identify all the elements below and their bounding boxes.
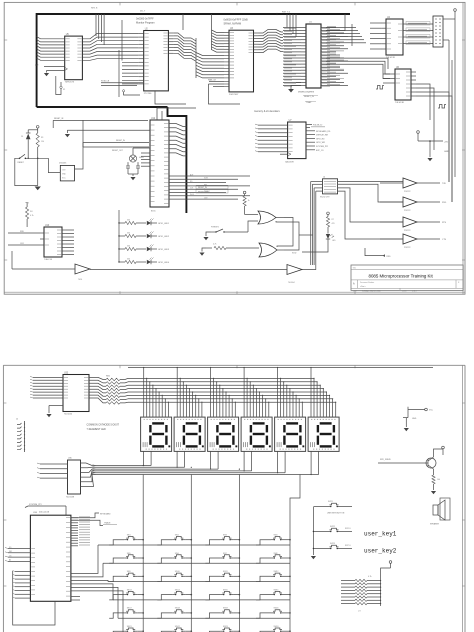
long serial receive wire [90,269,287,271]
svg-text:TXD: TXD [442,183,447,185]
svg-text:74HC573: 74HC573 [65,82,75,84]
title block size cell [353,280,460,288]
key switch SW24 [256,626,291,632]
svg-text:SW14: SW14 [175,589,180,591]
U12 top link wires [157,108,196,120]
svg-text:PN2222: PN2222 [404,230,411,232]
text monitor program range [136,18,155,25]
svg-text:SW23: SW23 [330,543,335,545]
reset push switch [15,154,49,185]
U34 scan line staircase to keypad [71,545,123,632]
svg-text:R7: R7 [332,219,334,221]
key switch SW11 [205,571,240,582]
svg-text:COMMON CATHODE 5-DIGIT: COMMON CATHODE 5-DIGIT [87,424,120,427]
latch U5 74HC573 [65,34,83,84]
interrupt button [313,501,352,515]
key switch SW5 [109,553,144,564]
seven segment display DS1 [141,417,172,451]
svg-text:RESET_IN: RESET_IN [198,187,207,189]
net labels U7 outputs [306,125,331,152]
U34 right pin name marks [31,518,70,596]
svg-text:RTS: RTS [442,222,447,224]
key switch SW23 [205,626,240,632]
wires U7 inputs fan [255,124,288,152]
key switch SW14 [157,589,192,600]
svg-text:SW8: SW8 [274,553,278,555]
svg-text:SW19: SW19 [223,608,228,610]
svg-text:D1: D1 [21,136,23,138]
wires RN1 to segment bus [120,378,128,403]
net label SYSTEM_PPI [25,504,66,515]
U34 return line wires [71,597,80,601]
bus bundle CPU left [287,14,296,37]
svg-text:0x11-0x13: 0x11-0x13 [39,511,50,513]
key switch SW18 [157,608,192,619]
U33 left pin wires [30,376,73,415]
key switch SW16 [256,589,291,600]
speaker driver transistor Q5 [378,446,444,494]
vcc at J1 [443,9,456,177]
U35 outputs to digit chain [81,463,99,487]
svg-text:Title: Title [353,266,356,269]
U33 enable and ground [46,406,63,418]
svg-text:SW22: SW22 [175,626,180,628]
svg-text:U10: U10 [45,225,50,227]
crystal oscillator circuit [126,148,150,180]
svg-text:IN1.5: IN1.5 [190,194,194,196]
svg-text:PN2222: PN2222 [404,191,411,193]
serial driver Q1 [380,178,447,193]
svg-text:CLR: CLR [20,243,24,245]
svg-text:RS232 DTE: RS232 DTE [320,197,330,199]
ALE wire into U5 [35,63,65,66]
power flags page2 top right [403,407,434,431]
title block date row [353,288,417,292]
resistor lower 4.7k [199,244,259,256]
svg-text:4.7k: 4.7k [368,576,372,578]
segment bus lines [128,378,336,402]
svg-text:Sunday, July 30, 2000: Sunday, July 30, 2000 [362,291,381,293]
net label RESET_IN at CPU [296,83,318,105]
svg-text:SW2: SW2 [175,535,179,537]
keypad row lines [98,545,290,632]
seven segment display DS2 [174,417,205,451]
connector J2 [16,419,25,453]
svg-text:OUT: OUT [204,198,208,200]
serial driver Q3 [380,217,447,232]
led GPIO_LED3 with resistor [118,245,170,252]
svg-text:EXP_CS: EXP_CS [316,150,324,152]
svg-text:SW1: SW1 [127,535,131,537]
key switch SW9 [109,571,144,582]
svg-text:SOD: SOD [292,253,297,255]
key switch SW13 [109,589,144,600]
key switch SW17 [109,608,144,619]
svg-text:GAL16V8: GAL16V8 [285,161,295,164]
svg-text:SW9: SW9 [127,571,131,573]
svg-text:PULSE_IO: PULSE_IO [313,125,323,127]
CPU control lines to decoders [326,14,390,79]
svg-text:user_key2: user_key2 [364,548,397,555]
key switch SW21 [109,626,144,632]
led column wire [118,210,120,262]
wires reset out to CPU [53,118,150,169]
wires U6 outputs [416,84,452,202]
wires U6 inputs [383,74,390,83]
key switch SW1 [109,535,144,546]
resistor network RN1 [106,376,120,405]
svg-text:GPIO_WR: GPIO_WR [316,142,326,144]
svg-text:GPIO_RD: GPIO_RD [316,138,325,140]
svg-text:GND: GND [412,418,417,420]
CPU U1 8085 body [298,22,321,94]
wires from U4 down right side [443,40,452,202]
segment drop wires display 1 [143,367,169,417]
led GPIO_LED2 with resistor [118,232,170,239]
svg-text:ROM_CE: ROM_CE [101,80,110,82]
svg-text:27C256: 27C256 [144,93,152,95]
U12 inner pin marks [151,124,168,204]
svg-text:RXD: RXD [20,231,25,233]
U34 left control wires [5,547,30,562]
svg-text:330: 330 [127,233,130,235]
wires U5 outputs to EPROM [82,14,119,60]
wire from left edge to U34 [13,571,55,625]
svg-text:RESET: RESET [18,162,25,164]
svg-text:SPEAKER: SPEAKER [430,523,440,526]
thick bus wire top-left [37,11,350,108]
svg-text:PWRBTN: PWRBTN [211,227,219,229]
svg-text:SW22: SW22 [330,526,335,528]
U12 control wires right [169,173,250,199]
svg-text:Date:: Date: [353,290,358,293]
svg-text:GND: GND [444,151,449,153]
svg-text:R1: R1 [63,89,65,91]
key switch SW2 [157,535,192,546]
CPU left pin labels [284,28,296,86]
wire RAM chip select [208,78,240,104]
CPU right pin labels [322,28,330,86]
svg-text:user_key1: user_key1 [364,531,397,538]
svg-text:4.7k: 4.7k [213,244,216,246]
keyboard controller U34 8279 [30,512,71,601]
page 2 sheet border [3,365,465,632]
segment drop wires display 5 [277,367,303,417]
decoder U7 GAL16V8 [288,120,306,159]
svg-text:RXD: RXD [387,256,392,258]
net label RXD lower [365,248,391,258]
svg-text:SW13: SW13 [127,589,132,591]
svg-text:74LS04: 74LS04 [288,282,295,284]
svg-text:RST5.5: RST5.5 [345,545,351,547]
svg-text:330: 330 [127,259,130,261]
svg-text:VCC: VCC [429,410,434,412]
svg-text:6MHz: 6MHz [139,157,144,159]
clock pin glyph U7 [280,153,291,156]
svg-text:D0..7: D0..7 [140,11,146,13]
svg-text:SW23: SW23 [223,626,228,628]
svg-text:SW20: SW20 [274,608,279,610]
wires address bus into U2 [119,20,139,97]
svg-text:U12: U12 [151,118,156,120]
svg-text:8085 Microprocessor Training K: 8085 Microprocessor Training Kit [369,274,434,279]
led GPIO_LED4 with resistor [118,258,170,265]
inverter U11 74LS04 [287,265,316,285]
vcc reset rail [35,126,41,191]
svg-text:74LS138: 74LS138 [395,102,405,104]
latch enable ground [44,68,68,77]
svg-text:DS1233: DS1233 [59,163,67,165]
svg-text:0x8000-0xFFFF 32kB: 0x8000-0xFFFF 32kB [224,19,249,22]
sod led with resistor [292,212,336,255]
svg-text:TRACE: TRACE [104,522,111,525]
svg-text:330: 330 [127,246,130,248]
svg-text:7-SEGMENT LED: 7-SEGMENT LED [87,428,106,431]
keypad column lines [143,465,300,632]
svg-text:RESET_IN: RESET_IN [54,118,64,120]
thick bus at U12 [168,107,187,213]
svg-text:SW4: SW4 [274,535,278,537]
segment drop wires display 4 [244,367,270,417]
svg-text:SW10: SW10 [175,571,180,573]
serial driver Q4 [380,234,447,249]
toggle switch [203,227,230,241]
wires address into U3 lower left [196,53,234,78]
svg-text:OUT: OUT [62,170,66,172]
title block [351,265,463,290]
svg-text:KEYBOARD: KEYBOARD [100,513,111,516]
svg-text:GPIO_LED3: GPIO_LED3 [158,249,170,251]
wires serial connect [338,182,449,240]
key switch SW12 [256,571,291,582]
ground at CPU [288,86,301,93]
text common cathode display [87,424,120,431]
header J1 [433,16,443,47]
vcc user key pull [311,507,316,559]
svg-text:<Doc>: <Doc> [360,285,366,288]
serial port header J4 [320,177,338,199]
svg-text:RESET_IN: RESET_IN [304,96,314,98]
speaker LS1 [430,498,450,526]
svg-text:SRAM, NVRAM: SRAM, NVRAM [224,23,242,26]
svg-text:SW21: SW21 [328,501,333,503]
svg-text:RAM_CE: RAM_CE [208,78,217,81]
U34 data bus labels right [71,517,90,546]
CPU address lines to right [326,24,366,46]
resistor R3 150 [36,133,44,147]
wires U3 data to CPU bus [259,30,284,53]
digit chain hook labels [93,465,96,475]
svg-text:RXD: RXD [442,202,447,204]
wires U2 data out [173,14,196,78]
net label boxes RESET_IN RESET_OUT [196,185,228,193]
key switch SW20 [256,608,291,619]
CPU right pins and wires [321,27,348,86]
seven segment display DS5 [275,417,306,451]
seven segment display DS6 [308,417,339,451]
svg-text:R3: R3 [41,137,43,139]
svg-text:D4: D4 [332,236,334,238]
user key1 button [313,526,352,532]
segment drop wires display 3 [210,367,236,417]
wires data bus into U3 top left [212,14,225,52]
svg-text:+5V: +5V [444,142,448,144]
svg-text:SW24: SW24 [274,626,279,628]
segment drop wires display 6 [310,367,336,417]
wire ROM chip select [101,80,186,104]
svg-text:74LS139: 74LS139 [386,57,396,59]
svg-text:SW7: SW7 [223,553,227,555]
svg-text:REV. B: REV. B [91,8,98,10]
svg-text:USR INTR BUTTON: USR INTR BUTTON [327,513,345,515]
svg-text:SPK_DRIVE: SPK_DRIVE [380,459,391,461]
svg-text:KEYBOARD_RD: KEYBOARD_RD [316,130,331,133]
pulse symbol near U6 [376,86,384,90]
svg-text:Document Number: Document Number [360,281,375,284]
digit select chain wires [98,451,319,475]
svg-text:SW21: SW21 [127,626,132,628]
segment top rail [128,367,433,369]
wires U10 left labels [8,231,40,245]
key switch SW8 [256,553,291,564]
svg-text:MSM80C85AHRS: MSM80C85AHRS [298,91,315,94]
svg-text:SW12: SW12 [274,571,279,573]
key switch SW10 [157,571,192,582]
svg-text:U33: U33 [64,372,69,374]
latch bottom jumper R1 [56,76,66,95]
U12 left wires [141,153,150,166]
svg-text:SW3: SW3 [223,535,227,537]
seven segment display DS3 [208,417,239,451]
reset supervisor DS1233 [48,158,74,181]
peripheral U12 8155 [150,118,169,207]
svg-text:SW17: SW17 [127,608,132,610]
svg-text:CTS: CTS [442,239,447,241]
svg-text:RST6.5: RST6.5 [345,528,351,530]
CPU left pins and wires [283,28,306,86]
pullup 1k with vcc [243,191,250,214]
svg-text:SW5: SW5 [127,553,131,555]
svg-text:PN2222: PN2222 [404,210,411,212]
EPROM U2 27C256 [139,28,174,95]
svg-text:RESET_OUT: RESET_OUT [112,150,124,152]
serial driver Q2 [380,197,447,212]
svg-text:IO/M: IO/M [204,178,208,180]
power +5V GND symbols [417,131,450,162]
svg-text:SYSTEM_PPI: SYSTEM_PPI [316,146,328,148]
svg-text:74LS138: 74LS138 [66,497,75,499]
wires U4 inputs [370,23,381,49]
pulse symbol right lower [438,105,446,109]
svg-text:R4: R4 [30,211,32,213]
svg-text:GPIO_LED2: GPIO_LED2 [158,236,170,238]
svg-text:RESET_OUT: RESET_OUT [198,191,210,193]
nand gate U9A [230,211,284,232]
svg-text:PN2222: PN2222 [404,247,411,249]
user key2 button [313,543,352,549]
key switch SW15 [205,589,240,600]
interface U10 [40,225,66,261]
svg-text:GPIO_LED1: GPIO_LED1 [158,223,170,225]
svg-text:GPIO_LED4: GPIO_LED4 [158,262,170,264]
svg-text:x 8: x 8 [358,611,361,613]
decoder U4 74HC139 [381,17,408,59]
net label TRACE [71,520,117,525]
key switch SW4 [256,535,291,546]
svg-text:7414: 7414 [78,279,82,281]
svg-text:SW18: SW18 [175,608,180,610]
svg-text:RST 7.5: RST 7.5 [282,12,291,14]
U33 right pins to resistor network [89,377,106,403]
svg-text:SW16: SW16 [274,589,279,591]
svg-text:100: 100 [437,479,440,481]
U34 left lower wires [13,571,31,599]
svg-text:74HC14: 74HC14 [44,259,53,261]
digit driver U35 [37,458,81,499]
nand gate U9B [259,243,284,257]
svg-text:RESET_IN: RESET_IN [116,140,125,142]
svg-text:A0: A0 [9,559,11,562]
inverter U10F 7414 [12,251,90,281]
wires U10 comb right [66,230,74,255]
segment drop wires display 2 [177,367,203,417]
svg-text:DS1230Y: DS1230Y [229,94,239,96]
svg-text:SW11: SW11 [223,571,228,573]
buffer U33 74LS244 [63,372,89,411]
seven segment display DS4 [241,417,272,451]
text NVRAM range [224,19,249,26]
svg-text:150: 150 [41,141,44,143]
key switch SW6 [157,553,192,564]
key switch SW19 [205,608,240,619]
svg-text:Monitor Program: Monitor Program [136,22,155,25]
svg-text:470: 470 [332,223,335,225]
svg-text:SYSTEM_PPI: SYSTEM_PPI [29,504,42,506]
diode D1 [21,130,38,159]
svg-text:4.7k: 4.7k [30,215,34,217]
svg-text:0x0000-0x7FFF: 0x0000-0x7FFF [136,18,154,21]
svg-text:J4: J4 [323,177,325,179]
svg-text:Sheet: Sheet [402,290,407,293]
net label KEYBOARD WR [71,513,111,518]
key switch SW7 [205,553,240,564]
key switch SW3 [205,535,240,546]
pullup resistor 4.7k [26,202,34,227]
svg-text:DISPLAY_WR: DISPLAY_WR [316,134,329,137]
svg-text:74LS244: 74LS244 [64,414,73,416]
decoder U6 74LS138 [390,67,416,104]
U12 port fan to bus [169,124,186,156]
key switch SW22 [157,626,192,632]
led GPIO_LED1 with resistor [118,219,170,226]
wires address fan into U5 left [37,37,65,61]
page 1 sheet border [4,2,465,294]
svg-text:1 of 2: 1 of 2 [412,291,417,293]
svg-text:1k: 1k [248,200,250,202]
svg-text:memory & i/o decoders: memory & i/o decoders [254,110,280,113]
cross coupling wires [276,218,313,251]
serial header left wires [311,182,323,266]
svg-text:SW6: SW6 [175,553,179,555]
RAM U3 DS1230 [224,28,259,96]
svg-text:SW15: SW15 [223,589,228,591]
pullup resistor pack [341,561,392,613]
svg-text:330: 330 [127,220,130,222]
net labels U4 outputs [406,21,433,44]
